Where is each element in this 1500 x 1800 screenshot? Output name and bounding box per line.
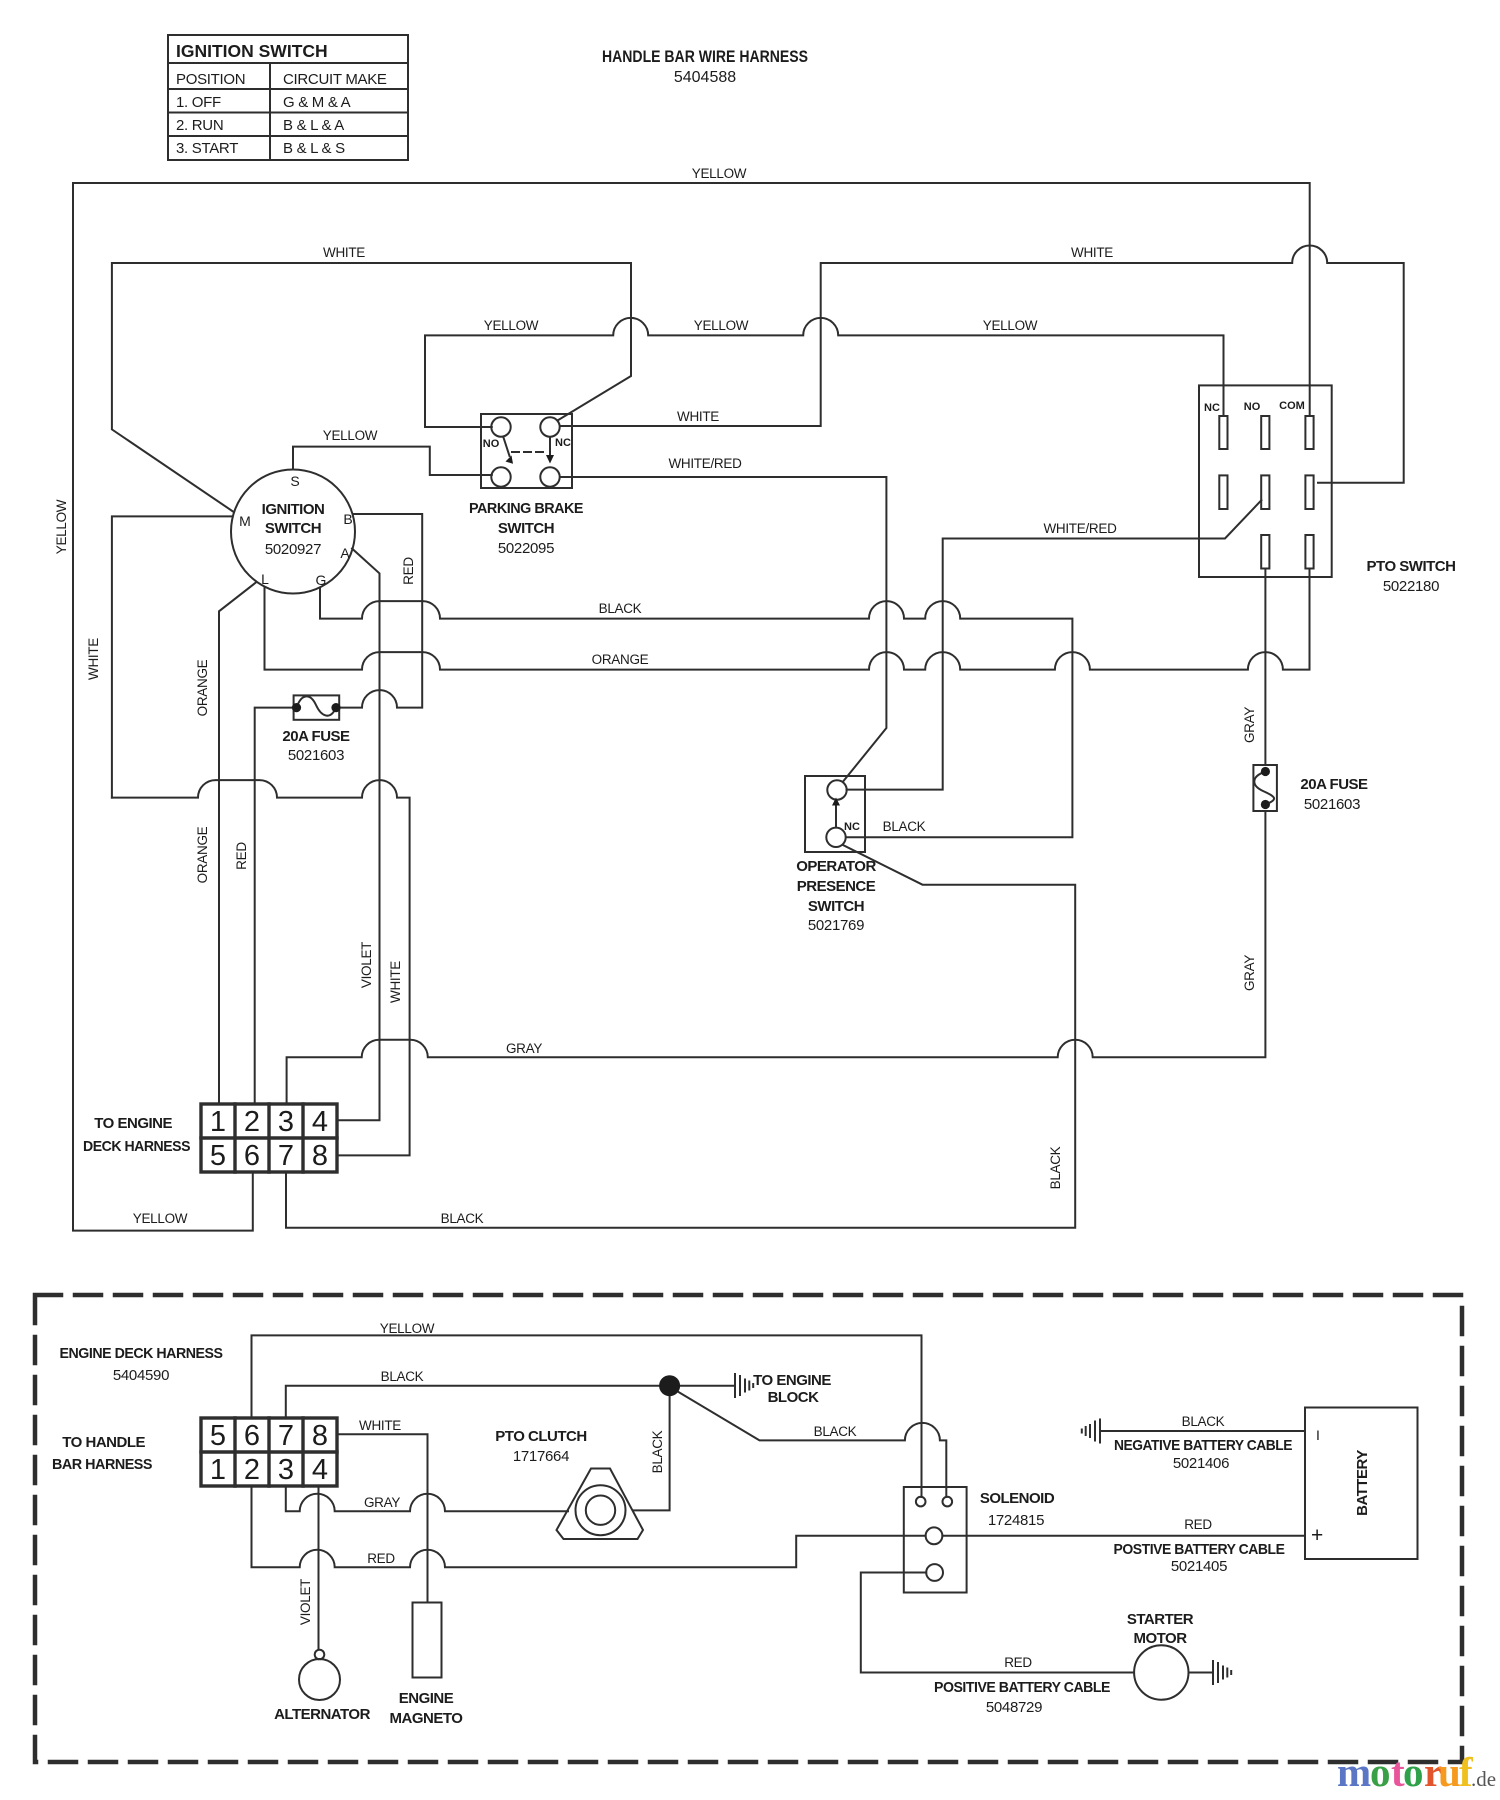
svg-text:POSTIVE BATTERY CABLE: POSTIVE BATTERY CABLE: [1114, 1541, 1285, 1558]
svg-text:GRAY: GRAY: [364, 1495, 400, 1510]
ground negative battery cable: [1082, 1420, 1100, 1443]
svg-text:BLACK: BLACK: [814, 1424, 857, 1439]
wire red from fuse left down to connector pin 2: [255, 708, 296, 1104]
wire starter motor to ground: [1189, 1672, 1212, 1674]
svg-text:BLACK: BLACK: [381, 1369, 424, 1384]
svg-text:1. OFF: 1. OFF: [176, 94, 221, 111]
svg-text:NO: NO: [483, 438, 500, 450]
svg-text:NEGATIVE BATTERY CABLE: NEGATIVE BATTERY CABLE: [1114, 1437, 1292, 1454]
svg-text:SOLENOID: SOLENOID: [980, 1490, 1055, 1507]
svg-text:5404588: 5404588: [674, 69, 736, 86]
wire orange from ignition L down to connector pin 1: [219, 582, 257, 1104]
svg-text:BATTERY: BATTERY: [1354, 1450, 1371, 1516]
svg-text:1724815: 1724815: [988, 1512, 1044, 1529]
wire red positive battery cable solenoid to battery: [942, 1535, 1305, 1537]
svg-text:COM: COM: [1279, 400, 1305, 412]
svg-text:TO ENGINE: TO ENGINE: [94, 1115, 172, 1132]
wire violet lower from connector pin 4 to alternator: [318, 1486, 320, 1650]
svg-text:4: 4: [312, 1454, 328, 1486]
svg-text:3: 3: [278, 1106, 294, 1138]
PTO pin COM bottom: [1305, 535, 1313, 569]
operator presence switch body: [805, 776, 865, 852]
svg-text:ALTERNATOR: ALTERNATOR: [274, 1706, 370, 1723]
svg-text:WHITE/RED: WHITE/RED: [1043, 521, 1117, 536]
parking brake actuator arrow NC: [549, 438, 551, 457]
svg-text:.de: .de: [1471, 1767, 1496, 1791]
svg-text:BLOCK: BLOCK: [768, 1389, 819, 1406]
svg-text:7: 7: [278, 1420, 294, 1452]
svg-text:WHITE: WHITE: [677, 409, 719, 424]
svg-text:RED: RED: [367, 1551, 395, 1566]
alternator body circle: [299, 1659, 340, 1700]
wire black from junction dot to solenoid right pin: [676, 1391, 946, 1498]
svg-text:YELLOW: YELLOW: [484, 318, 539, 333]
parking brake actuator arrow NO: [504, 438, 510, 457]
wire black from junction dot down to PTO clutch: [633, 1394, 670, 1510]
connector TO HANDLE BAR HARNESS body: [201, 1418, 337, 1486]
wire red lower from connector pin 2 to solenoid mid terminal: [252, 1486, 926, 1567]
parking brake switch body: [481, 414, 572, 488]
svg-text:MAGNETO: MAGNETO: [390, 1710, 464, 1727]
svg-text:YELLOW: YELLOW: [133, 1211, 188, 1226]
svg-text:1: 1: [210, 1454, 226, 1486]
arrowhead parking brake NC: [546, 455, 554, 464]
svg-text:PTO SWITCH: PTO SWITCH: [1367, 558, 1456, 575]
svg-text:TO ENGINE: TO ENGINE: [753, 1372, 831, 1389]
svg-text:YELLOW: YELLOW: [692, 166, 747, 181]
solenoid body: [904, 1487, 967, 1593]
battery body: [1305, 1408, 1418, 1560]
PTO pin COM top: [1305, 416, 1313, 449]
svg-text:WHITE: WHITE: [359, 1418, 401, 1433]
svg-text:WHITE: WHITE: [388, 961, 403, 1003]
wire white from parking brake NC top to right, up, and across to PTO COM mid: [560, 246, 1404, 483]
svg-text:5048729: 5048729: [986, 1699, 1042, 1716]
solenoid pin right: [943, 1497, 953, 1507]
wire yellow lower from connector pin 6 to solenoid pin: [252, 1335, 922, 1497]
PTO clutch outer circle: [576, 1485, 626, 1535]
svg-text:m: m: [1337, 1749, 1371, 1795]
operator presence contact bottom: [826, 828, 845, 847]
fuse F1 left dot: [292, 703, 301, 712]
svg-text:ENGINE DECK HARNESS: ENGINE DECK HARNESS: [60, 1345, 223, 1362]
wire white/red from operator presence top to PTO NO mid pin: [847, 500, 1262, 789]
parking brake switch contact NC top: [540, 417, 559, 436]
svg-text:PRESENCE: PRESENCE: [797, 878, 876, 895]
svg-text:5021406: 5021406: [1173, 1455, 1229, 1472]
svg-text:5: 5: [210, 1140, 226, 1172]
svg-text:5021603: 5021603: [1304, 796, 1360, 813]
wire yellow main loop (top border, left border, bottom to connector pin 6, right drop to PTO COM): [73, 183, 1310, 1231]
fuse F2 top dot: [1261, 767, 1270, 776]
parking brake switch contact NC bottom: [540, 467, 559, 486]
svg-text:NC: NC: [555, 437, 571, 449]
alternator small terminal circle: [315, 1650, 325, 1660]
svg-text:ENGINE: ENGINE: [399, 1690, 454, 1707]
svg-text:G & M & A: G & M & A: [283, 94, 351, 111]
wire black from operator presence bottom down to connector pin 7: [286, 845, 1075, 1228]
PTO pin NO top: [1261, 416, 1269, 449]
wire white from ignition M left and down: [112, 516, 232, 797]
svg-text:5: 5: [210, 1420, 226, 1452]
PTO clutch inner circle: [586, 1496, 615, 1525]
svg-text:POSITION: POSITION: [176, 71, 245, 88]
svg-text:BAR HARNESS: BAR HARNESS: [52, 1456, 152, 1473]
svg-text:MOTOR: MOTOR: [1133, 1630, 1187, 1647]
svg-text:5022095: 5022095: [498, 540, 554, 557]
svg-text:BLACK: BLACK: [650, 1430, 665, 1473]
wire black from junction dot to engine block ground: [678, 1385, 733, 1387]
wire white lower from connector pin 8 to engine magneto: [337, 1434, 428, 1602]
svg-text:BLACK: BLACK: [1182, 1414, 1225, 1429]
svg-text:8: 8: [312, 1420, 328, 1452]
arrowhead operator presence: [832, 798, 840, 806]
svg-text:NC: NC: [844, 821, 860, 833]
ignition switch body circle: [231, 470, 355, 594]
starter motor body circle: [1134, 1645, 1188, 1699]
svg-text:BLACK: BLACK: [1048, 1146, 1063, 1189]
svg-text:ORANGE: ORANGE: [592, 652, 649, 667]
svg-text:7: 7: [278, 1140, 294, 1172]
svg-text:ORANGE: ORANGE: [195, 659, 210, 716]
svg-text:ORANGE: ORANGE: [195, 826, 210, 883]
svg-text:NC: NC: [1204, 402, 1220, 414]
svg-text:WHITE: WHITE: [1071, 245, 1113, 260]
svg-text:IGNITION: IGNITION: [262, 501, 325, 518]
fuse 20A F2 element: [1254, 772, 1274, 805]
svg-text:YELLOW: YELLOW: [380, 1321, 435, 1336]
fuse F2 bottom dot: [1261, 800, 1270, 809]
svg-text:6: 6: [244, 1140, 260, 1172]
svg-text:20A FUSE: 20A FUSE: [282, 728, 350, 745]
ground engine block: [735, 1374, 753, 1397]
PTO pin NO mid: [1261, 475, 1269, 509]
wire white/red from parking brake NC bottom to operator presence top: [560, 477, 886, 781]
svg-text:5021603: 5021603: [288, 747, 344, 764]
svg-text:TO HANDLE: TO HANDLE: [62, 1434, 145, 1451]
svg-text:DECK HARNESS: DECK HARNESS: [83, 1138, 190, 1155]
svg-text:S: S: [290, 473, 299, 489]
fuse 20A F1 element: [297, 696, 337, 715]
wire yellow from parking brake NO top, up and across to PTO NC top pin: [425, 318, 1224, 427]
svg-text:2: 2: [244, 1106, 260, 1138]
fuse 20A F2 body (right): [1253, 765, 1277, 811]
engine magneto body: [413, 1603, 442, 1678]
svg-text:GRAY: GRAY: [1242, 707, 1257, 743]
svg-text:B & L & S: B & L & S: [283, 140, 345, 157]
svg-text:VIOLET: VIOLET: [359, 942, 374, 988]
svg-text:o: o: [1370, 1749, 1391, 1795]
connector TO ENGINE DECK HARNESS body: [201, 1104, 337, 1172]
svg-text:GRAY: GRAY: [506, 1041, 542, 1056]
wire violet from ignition A down to connector pin 4: [337, 549, 380, 1121]
svg-text:BLACK: BLACK: [441, 1211, 484, 1226]
fuse F1 right dot: [331, 703, 340, 712]
svg-text:20A FUSE: 20A FUSE: [1300, 776, 1368, 793]
parking brake dashed link: [512, 451, 547, 453]
wire white from ignition M up-left and across top: [112, 263, 631, 512]
svg-text:GRAY: GRAY: [1242, 955, 1257, 991]
svg-text:L: L: [261, 571, 269, 587]
wire white vertical drop and diagonal to parking brake NC top: [558, 263, 632, 421]
solenoid terminal bottom: [926, 1564, 943, 1581]
svg-text:YELLOW: YELLOW: [54, 499, 69, 554]
parking brake switch contact NO bottom: [491, 467, 510, 486]
svg-text:4: 4: [312, 1106, 328, 1138]
svg-text:5022180: 5022180: [1383, 578, 1439, 595]
svg-text:SWITCH: SWITCH: [498, 520, 554, 537]
svg-text:NO: NO: [1244, 401, 1261, 413]
ignition table frame: [168, 35, 408, 160]
svg-text:CIRCUIT MAKE: CIRCUIT MAKE: [283, 71, 387, 88]
svg-text:I: I: [1316, 1427, 1320, 1443]
svg-text:u: u: [1438, 1749, 1461, 1795]
wire white horizontal with hops to connector pin 8: [112, 780, 410, 1155]
svg-text:6: 6: [244, 1420, 260, 1452]
svg-text:SWITCH: SWITCH: [265, 520, 321, 537]
svg-text:B & L & A: B & L & A: [283, 117, 344, 134]
svg-text:HANDLE BAR WIRE HARNESS: HANDLE BAR WIRE HARNESS: [602, 48, 808, 66]
svg-text:5020927: 5020927: [265, 541, 321, 558]
svg-text:STARTER: STARTER: [1127, 1611, 1194, 1628]
wire yellow from ignition S to parking brake NO bottom: [293, 447, 492, 475]
svg-text:G: G: [316, 572, 327, 588]
svg-text:YELLOW: YELLOW: [983, 318, 1038, 333]
fuse 20A F1 body: [294, 695, 340, 719]
svg-text:BLACK: BLACK: [883, 819, 926, 834]
wire black negative battery cable ground to battery: [1101, 1430, 1305, 1432]
svg-text:RED: RED: [1184, 1517, 1212, 1532]
wire gray from connector pin 3 up and across to right fuse: [287, 811, 1266, 1104]
operator presence arrow: [835, 804, 837, 827]
svg-text:RED: RED: [234, 842, 249, 870]
svg-text:RED: RED: [1004, 1655, 1032, 1670]
wire gray from PTO NO bottom pin down to right fuse: [1264, 569, 1266, 766]
ground starter motor: [1213, 1661, 1231, 1684]
svg-text:B: B: [343, 511, 352, 527]
svg-text:8: 8: [312, 1140, 328, 1172]
PTO pin COM mid: [1305, 475, 1313, 509]
wire black from ignition G across to operator presence bottom: [320, 588, 1072, 838]
PTO pin NO bottom: [1261, 535, 1269, 569]
motoruf logo: [1337, 1749, 1496, 1795]
svg-text:o: o: [1403, 1749, 1424, 1795]
svg-text:PTO CLUTCH: PTO CLUTCH: [495, 1428, 586, 1445]
svg-text:2: 2: [244, 1454, 260, 1486]
wire red positive battery cable solenoid to starter motor: [861, 1573, 1134, 1673]
svg-text:YELLOW: YELLOW: [694, 318, 749, 333]
dashed harness boundary box: [35, 1295, 1462, 1762]
svg-text:5021769: 5021769: [808, 917, 864, 934]
svg-text:5404590: 5404590: [113, 1367, 169, 1384]
solenoid terminal mid: [926, 1527, 943, 1544]
svg-text:+: +: [1311, 1524, 1323, 1547]
wire black lower from connector pin 7 to junction dot: [286, 1386, 662, 1418]
svg-text:5021405: 5021405: [1171, 1558, 1227, 1575]
junction dot engine deck black node: [659, 1375, 680, 1396]
svg-text:A: A: [340, 545, 350, 561]
PTO switch body: [1199, 385, 1332, 577]
svg-text:RED: RED: [401, 557, 416, 585]
svg-text:YELLOW: YELLOW: [323, 428, 378, 443]
wire red from ignition B down to fuse right: [339, 514, 422, 708]
svg-text:IGNITION SWITCH: IGNITION SWITCH: [176, 41, 328, 61]
arrowhead parking brake NO: [506, 456, 514, 464]
svg-text:VIOLET: VIOLET: [298, 1579, 313, 1625]
svg-text:WHITE: WHITE: [323, 245, 365, 260]
svg-text:3: 3: [278, 1454, 294, 1486]
svg-text:PARKING BRAKE: PARKING BRAKE: [469, 500, 583, 517]
PTO pin NC mid: [1219, 475, 1227, 509]
svg-text:POSITIVE BATTERY CABLE: POSITIVE BATTERY CABLE: [934, 1679, 1110, 1696]
svg-text:SWITCH: SWITCH: [808, 898, 864, 915]
wire gray lower from connector pin 3 to PTO clutch: [286, 1486, 568, 1511]
svg-text:OPERATOR: OPERATOR: [796, 858, 876, 875]
svg-text:1717664: 1717664: [513, 1448, 569, 1465]
wire orange from ignition L across to PTO COM bottom: [265, 569, 1310, 670]
PTO pin NC top: [1219, 416, 1227, 449]
PTO clutch triangle: [557, 1469, 644, 1540]
solenoid pin left: [916, 1497, 926, 1507]
svg-text:1: 1: [210, 1106, 226, 1138]
parking brake switch contact NO top: [491, 417, 510, 436]
svg-text:2. RUN: 2. RUN: [176, 117, 223, 134]
svg-text:WHITE/RED: WHITE/RED: [668, 456, 742, 471]
svg-text:3. START: 3. START: [176, 140, 238, 157]
svg-text:WHITE: WHITE: [86, 638, 101, 680]
svg-text:M: M: [239, 513, 251, 529]
svg-text:BLACK: BLACK: [599, 601, 642, 616]
operator presence contact top: [827, 780, 846, 799]
